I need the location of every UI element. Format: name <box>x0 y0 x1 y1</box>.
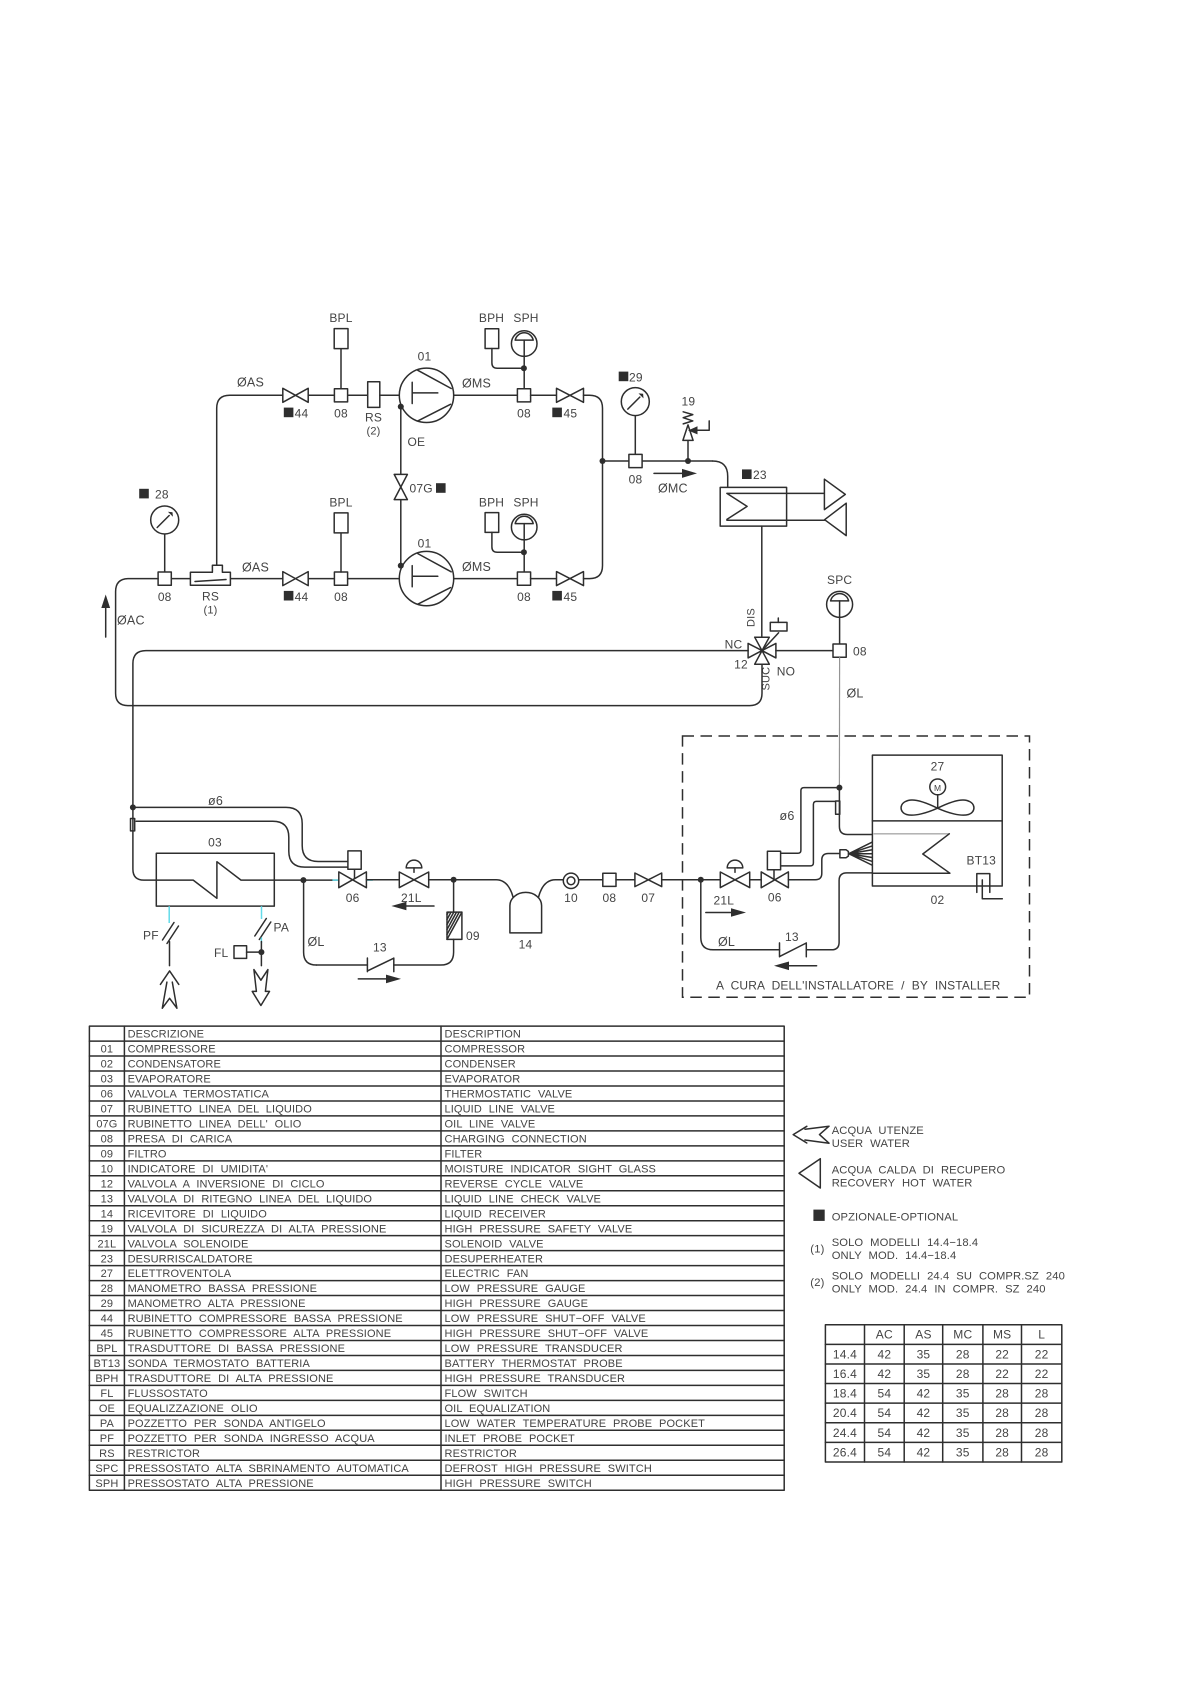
svg-text:ø6: ø6 <box>208 794 223 808</box>
wire: desuperheater water pipes <box>787 493 825 520</box>
svg-text:SONDA TERMOSTATO BATTERIA: SONDA TERMOSTATO BATTERIA <box>128 1358 311 1370</box>
reverse cycle valve 12 <box>762 633 779 651</box>
svg-text:ØAS: ØAS <box>237 376 264 390</box>
svg-text:RUBINETTO LINEA DEL LIQUIDO: RUBINETTO LINEA DEL LIQUIDO <box>128 1104 313 1116</box>
svg-text:13: 13 <box>101 1193 113 1205</box>
svg-text:26.4: 26.4 <box>833 1445 857 1459</box>
svg-text:ELECTRIC FAN: ELECTRIC FAN <box>445 1268 529 1280</box>
svg-text:RUBINETTO LINEA DELL' OLIO: RUBINETTO LINEA DELL' OLIO <box>128 1119 302 1131</box>
svg-text:06: 06 <box>101 1089 113 1101</box>
svg-text:SPH: SPH <box>513 311 538 325</box>
svg-text:INLET PROBE POCKET: INLET PROBE POCKET <box>445 1433 576 1445</box>
svg-text:08: 08 <box>334 407 348 421</box>
svg-text:OE: OE <box>99 1403 115 1415</box>
svg-text:MC: MC <box>953 1328 972 1342</box>
svg-text:PRESSOSTATO ALTA SBRINAMENTO A: PRESSOSTATO ALTA SBRINAMENTO AUTOMATICA <box>128 1463 410 1475</box>
wire: compressor 2 discharge ØMS <box>454 578 518 580</box>
svg-text:MS: MS <box>993 1328 1011 1342</box>
gauge 28 (low pressure gauge) <box>139 489 149 499</box>
svg-text:07G: 07G <box>96 1119 117 1131</box>
svg-text:LIQUID LINE VALVE: LIQUID LINE VALVE <box>445 1104 556 1116</box>
svg-text:MANOMETRO ALTA PRESSIONE: MANOMETRO ALTA PRESSIONE <box>128 1298 306 1310</box>
svg-text:DESUPERHEATER: DESUPERHEATER <box>445 1253 544 1265</box>
svg-text:PF: PF <box>100 1433 114 1445</box>
svg-text:03: 03 <box>208 836 222 850</box>
svg-text:AS: AS <box>915 1328 931 1342</box>
svg-text:OIL LINE VALVE: OIL LINE VALVE <box>445 1119 536 1131</box>
wire: top suction line ØAS from RS(1) riser to compressor U1 <box>217 395 400 565</box>
svg-text:ONLY MOD. 14.4−18.4: ONLY MOD. 14.4−18.4 <box>832 1250 957 1262</box>
svg-text:ØAS: ØAS <box>242 561 269 575</box>
svg-text:ØL: ØL <box>308 935 325 949</box>
transducer BPL (top, low pressure) <box>340 349 342 389</box>
svg-text:BPL: BPL <box>329 311 352 325</box>
svg-text:RS: RS <box>202 590 219 604</box>
svg-text:POZZETTO PER SONDA ANTIGELO: POZZETTO PER SONDA ANTIGELO <box>128 1418 326 1430</box>
svg-text:28: 28 <box>995 1387 1009 1401</box>
svg-text:BPH: BPH <box>95 1373 118 1385</box>
svg-text:BPH: BPH <box>479 496 504 510</box>
water inlet triangle (recovery hot water) <box>825 503 847 535</box>
svg-text:02: 02 <box>931 893 945 907</box>
svg-text:RECOVERY HOT WATER: RECOVERY HOT WATER <box>832 1178 973 1190</box>
svg-text:DEFROST HIGH PRESSURE SWITCH: DEFROST HIGH PRESSURE SWITCH <box>445 1463 652 1475</box>
svg-text:54: 54 <box>877 1445 891 1459</box>
svg-text:14.4: 14.4 <box>833 1347 857 1361</box>
node: bypass junction (right) <box>698 877 704 883</box>
solenoid valve 21L (left) <box>406 860 422 868</box>
restrictor RS (1) <box>190 565 230 585</box>
svg-text:23: 23 <box>101 1253 113 1265</box>
svg-text:08: 08 <box>158 590 172 604</box>
node: header junction left <box>600 458 606 464</box>
svg-text:REVERSE CYCLE VALVE: REVERSE CYCLE VALVE <box>445 1178 584 1190</box>
svg-text:28: 28 <box>101 1283 113 1295</box>
wire: 08 to valve 45 (bottom) <box>531 578 557 580</box>
svg-text:TRASDUTTORE DI ALTA PRESSIONE: TRASDUTTORE DI ALTA PRESSIONE <box>128 1373 334 1385</box>
svg-text:08: 08 <box>629 473 643 487</box>
svg-text:23: 23 <box>753 468 767 482</box>
svg-text:PRESA DI CARICA: PRESA DI CARICA <box>128 1133 233 1145</box>
svg-text:18.4: 18.4 <box>833 1387 857 1401</box>
water inlet arrow (up) <box>160 971 178 1008</box>
svg-text:35: 35 <box>956 1406 970 1420</box>
spray lines <box>849 840 877 868</box>
svg-text:FILTRO: FILTRO <box>128 1148 167 1160</box>
svg-text:HIGH PRESSURE TRANSDUCER: HIGH PRESSURE TRANSDUCER <box>445 1373 626 1385</box>
svg-text:35: 35 <box>956 1426 970 1440</box>
svg-text:CONDENSATORE: CONDENSATORE <box>128 1059 221 1071</box>
node: FL junction <box>258 949 264 955</box>
safety valve 19 (high pressure safety valve) <box>687 441 689 461</box>
svg-text:28: 28 <box>956 1347 970 1361</box>
svg-text:OIL EQUALIZATION: OIL EQUALIZATION <box>445 1403 551 1415</box>
wire: bottom discharge up to common header <box>584 461 603 579</box>
condenser 02 box <box>872 755 1002 886</box>
svg-text:VALVOLA DI SICUREZZA DI ALTA P: VALVOLA DI SICUREZZA DI ALTA PRESSIONE <box>128 1223 387 1235</box>
charging connection 08 (bottom discharge) <box>517 572 530 585</box>
svg-text:13: 13 <box>373 941 387 955</box>
charging connection 08 (top discharge) <box>517 389 530 402</box>
svg-text:BT13: BT13 <box>94 1358 121 1370</box>
wire: oil equalization line OE <box>400 407 402 566</box>
thermostatic valve 06 (right) with actuator <box>767 851 780 870</box>
svg-text:ØL: ØL <box>847 687 864 701</box>
svg-text:42: 42 <box>917 1406 931 1420</box>
svg-text:16.4: 16.4 <box>833 1367 857 1381</box>
svg-text:MANOMETRO BASSA PRESSIONE: MANOMETRO BASSA PRESSIONE <box>128 1283 318 1295</box>
svg-text:NO: NO <box>777 665 795 679</box>
svg-text:MOISTURE INDICATOR SIGHT GLASS: MOISTURE INDICATOR SIGHT GLASS <box>445 1163 657 1175</box>
svg-text:14: 14 <box>101 1208 113 1220</box>
svg-text:INDICATORE DI UMIDITA': INDICATORE DI UMIDITA' <box>128 1163 268 1175</box>
charging connection 08 (left, suction header) <box>158 572 171 585</box>
wire: riser to evaporator inlet <box>133 807 156 880</box>
svg-text:21L: 21L <box>714 894 735 908</box>
restrictor on ØL line (right) <box>836 801 840 814</box>
svg-text:NC: NC <box>725 638 743 652</box>
moisture indicator sight glass 10 <box>563 873 578 888</box>
svg-text:(1): (1) <box>810 1244 824 1256</box>
water outlet arrow (down) <box>252 970 269 1006</box>
spray nozzle at condenser <box>840 850 849 858</box>
thermostatic valve 06 (left) with actuator <box>348 851 361 869</box>
svg-text:12: 12 <box>101 1178 113 1190</box>
svg-text:THERMOSTATIC VALVE: THERMOSTATIC VALVE <box>445 1089 573 1101</box>
charging connection 08 (reverse valve) <box>833 644 846 657</box>
evaporator 03 <box>156 853 274 906</box>
svg-text:07G: 07G <box>410 482 433 496</box>
optional marker square <box>813 1210 824 1221</box>
svg-text:28: 28 <box>1035 1387 1049 1401</box>
svg-text:28: 28 <box>1035 1406 1049 1420</box>
transducer BPH (top, high pressure) <box>485 329 499 349</box>
wire: ØL to condenser coil top <box>839 788 872 835</box>
svg-text:DESURRISCALDATORE: DESURRISCALDATORE <box>128 1253 253 1265</box>
restrictor on liquid riser (left) <box>131 819 135 831</box>
condenser coil <box>874 833 950 835</box>
wire: main liquid line in installer box <box>662 879 721 881</box>
node: oil equalization tap on compressor 1 <box>398 404 404 410</box>
compressor 01 (top) <box>399 368 453 422</box>
wire: ø6 bulb line to TEV (right) <box>781 801 836 866</box>
svg-text:FILTER: FILTER <box>445 1148 483 1160</box>
recovery hot water arrow symbol <box>799 1159 820 1188</box>
svg-text:SOLENOID VALVE: SOLENOID VALVE <box>445 1238 544 1250</box>
svg-text:44: 44 <box>295 590 309 604</box>
svg-text:54: 54 <box>877 1426 891 1440</box>
wire: ø6 equalization line (left) <box>133 807 348 861</box>
wire: filter to bypass (left) <box>394 939 454 965</box>
svg-text:10: 10 <box>564 891 578 905</box>
svg-text:AC: AC <box>876 1328 893 1342</box>
probe pocket PA (antifreeze probe) <box>261 906 263 919</box>
node: junction SPH/BPH (bottom) <box>521 549 527 555</box>
svg-text:SOLO MODELLI 24.4 SU COMPR.SZ: SOLO MODELLI 24.4 SU COMPR.SZ 240 <box>832 1271 1065 1283</box>
svg-text:09: 09 <box>466 929 480 943</box>
wire: compressor 1 discharge ØMS <box>454 394 518 396</box>
wire: reverse valve to 08 right <box>776 650 833 652</box>
svg-text:BATTERY THERMOSTAT PROBE: BATTERY THERMOSTAT PROBE <box>445 1358 623 1370</box>
svg-text:35: 35 <box>917 1367 931 1381</box>
flow switch FL <box>234 946 247 959</box>
svg-text:28: 28 <box>1035 1426 1049 1440</box>
svg-text:RS: RS <box>365 411 382 425</box>
svg-text:FLUSSOSTATO: FLUSSOSTATO <box>128 1388 208 1400</box>
wire: header to desuperheater <box>713 461 728 487</box>
svg-text:ØMS: ØMS <box>462 560 491 574</box>
svg-text:22: 22 <box>995 1347 1009 1361</box>
svg-text:29: 29 <box>629 370 643 384</box>
wire: evaporator outlet line <box>303 879 339 881</box>
svg-text:22: 22 <box>1035 1347 1049 1361</box>
gauge 29 (high pressure gauge) <box>619 372 629 382</box>
svg-text:HIGH PRESSURE SHUT−OFF VALVE: HIGH PRESSURE SHUT−OFF VALVE <box>445 1328 649 1340</box>
svg-text:LIQUID RECEIVER: LIQUID RECEIVER <box>445 1208 546 1220</box>
wire: TEV to spray nozzle <box>788 854 839 880</box>
svg-text:BT13: BT13 <box>967 854 997 868</box>
svg-text:27: 27 <box>931 760 945 774</box>
legend table <box>89 1026 784 1490</box>
svg-text:EQUALIZZAZIONE OLIO: EQUALIZZAZIONE OLIO <box>128 1403 258 1415</box>
valve 44 (low pressure shut-off, top circuit) <box>283 388 308 402</box>
svg-text:42: 42 <box>917 1426 931 1440</box>
pipe size table <box>825 1325 1061 1462</box>
svg-text:(2): (2) <box>366 426 380 438</box>
pressure switch SPH (top) <box>511 331 537 357</box>
node: oil equalization tap on compressor 2 <box>398 563 404 569</box>
wire: desuperheater outlet down to reverse cycle valve DIS <box>761 526 763 637</box>
wire: RS(2) to compressor 1 <box>380 394 402 396</box>
svg-text:PA: PA <box>274 921 290 935</box>
svg-text:ELETTROVENTOLA: ELETTROVENTOLA <box>128 1268 232 1280</box>
svg-text:01: 01 <box>418 537 432 551</box>
svg-text:03: 03 <box>101 1074 113 1086</box>
svg-text:42: 42 <box>917 1445 931 1459</box>
svg-text:POZZETTO PER SONDA INGRESSO AC: POZZETTO PER SONDA INGRESSO ACQUA <box>128 1433 376 1445</box>
svg-text:PRESSOSTATO ALTA PRESSIONE: PRESSOSTATO ALTA PRESSIONE <box>128 1478 314 1490</box>
svg-text:07: 07 <box>101 1104 113 1116</box>
svg-text:RESTRICTOR: RESTRICTOR <box>128 1448 201 1460</box>
charging connection 08 (bottom suction) <box>334 572 347 585</box>
svg-text:HIGH PRESSURE SAFETY VALVE: HIGH PRESSURE SAFETY VALVE <box>445 1223 633 1235</box>
compressor 01 (bottom) <box>399 551 453 605</box>
user water arrow symbol <box>793 1126 829 1143</box>
wire: 06 to 21L (left) <box>366 879 399 881</box>
svg-text:BPL: BPL <box>96 1343 117 1355</box>
svg-text:45: 45 <box>564 590 578 604</box>
svg-text:35: 35 <box>956 1445 970 1459</box>
svg-text:DESCRIZIONE: DESCRIZIONE <box>128 1029 205 1041</box>
svg-text:USER WATER: USER WATER <box>832 1138 910 1150</box>
svg-text:FL: FL <box>100 1388 113 1400</box>
restrictor RS (2) <box>368 382 380 408</box>
svg-text:SPH: SPH <box>513 496 538 510</box>
svg-text:28: 28 <box>995 1426 1009 1440</box>
wire: bypass riser (left) <box>304 880 317 965</box>
wire: sight glass to 08 <box>579 879 603 881</box>
svg-text:RS: RS <box>99 1448 115 1460</box>
installer dashed box <box>683 736 1030 997</box>
svg-text:28: 28 <box>995 1445 1009 1459</box>
check valve 13 (left) <box>367 958 393 972</box>
svg-text:SPC: SPC <box>95 1463 118 1475</box>
transducer BPH (bottom) <box>485 513 499 533</box>
charging connection 08 (top suction) <box>334 389 347 402</box>
desuperheater 23 <box>720 487 786 526</box>
node: header junction right <box>685 458 691 464</box>
svg-text:28: 28 <box>995 1406 1009 1420</box>
svg-text:08: 08 <box>853 644 867 658</box>
probe pocket PF (inlet probe) <box>168 906 170 923</box>
svg-text:28: 28 <box>956 1367 970 1381</box>
svg-text:ØMS: ØMS <box>462 377 491 391</box>
svg-text:PF: PF <box>143 929 159 943</box>
svg-text:LOW WATER TEMPERATURE PROBE PO: LOW WATER TEMPERATURE PROBE POCKET <box>445 1418 706 1430</box>
svg-text:01: 01 <box>101 1044 113 1056</box>
wire: bypass to junction (right) <box>701 880 713 950</box>
svg-text:RICEVITORE DI LIQUIDO: RICEVITORE DI LIQUIDO <box>128 1208 268 1220</box>
wire: bottom suction line ØAS <box>171 578 190 580</box>
svg-text:OE: OE <box>408 435 426 449</box>
node: ø6 junction at condenser <box>836 785 842 791</box>
battery thermostat probe BT13 <box>977 874 1003 899</box>
svg-text:22: 22 <box>1035 1367 1049 1381</box>
svg-text:01: 01 <box>418 350 432 364</box>
svg-text:VALVOLA TERMOSTATICA: VALVOLA TERMOSTATICA <box>128 1089 270 1101</box>
svg-text:RUBINETTO COMPRESSORE BASSA PR: RUBINETTO COMPRESSORE BASSA PRESSIONE <box>128 1313 403 1325</box>
svg-text:27: 27 <box>101 1268 113 1280</box>
svg-text:08: 08 <box>517 590 531 604</box>
svg-text:42: 42 <box>877 1347 891 1361</box>
flow arrow at check valve (right) <box>774 962 789 971</box>
wire: liquid line to receiver 14 <box>454 880 564 898</box>
charging connection 08 (liquid line) <box>603 873 616 886</box>
wire: 08 to valve 45 (top) <box>531 394 557 396</box>
svg-text:ØMC: ØMC <box>658 482 688 496</box>
solenoid valve 21L (right) <box>727 860 743 868</box>
flow arrow at 21L (left) <box>391 902 406 911</box>
svg-text:BPL: BPL <box>329 496 352 510</box>
svg-text:M: M <box>934 783 941 793</box>
transducer BPL (bottom) <box>340 533 342 572</box>
svg-text:FL: FL <box>214 946 229 960</box>
svg-text:VALVOLA DI RITEGNO LINEA DEL L: VALVOLA DI RITEGNO LINEA DEL LIQUIDO <box>128 1193 373 1205</box>
svg-text:ØL: ØL <box>718 935 735 949</box>
flow arrow ØMC <box>654 472 684 474</box>
svg-text:13: 13 <box>785 930 799 944</box>
wire: discharge header ØMC <box>603 460 713 462</box>
svg-text:35: 35 <box>956 1387 970 1401</box>
svg-text:21L: 21L <box>98 1238 117 1250</box>
liquid receiver 14 <box>510 892 542 933</box>
svg-text:19: 19 <box>101 1223 113 1235</box>
svg-text:SPH: SPH <box>95 1478 118 1490</box>
svg-text:24.4: 24.4 <box>833 1426 857 1440</box>
svg-text:ø6: ø6 <box>780 809 795 823</box>
valve 45 (high pressure shut-off, top circuit) <box>557 388 584 402</box>
svg-text:ACQUA CALDA DI RECUPERO: ACQUA CALDA DI RECUPERO <box>832 1165 1006 1177</box>
svg-text:44: 44 <box>101 1313 113 1325</box>
svg-text:OPZIONALE-OPTIONAL: OPZIONALE-OPTIONAL <box>832 1211 959 1223</box>
svg-text:08: 08 <box>517 407 531 421</box>
wire: ø6 equalization line to TEV (right) <box>781 788 840 854</box>
svg-text:12: 12 <box>734 658 748 672</box>
svg-text:LOW PRESSURE GAUGE: LOW PRESSURE GAUGE <box>445 1283 586 1295</box>
wire: condenser bottom to check valve bypass (right) <box>806 873 872 950</box>
svg-text:29: 29 <box>101 1298 113 1310</box>
svg-text:06: 06 <box>768 891 782 905</box>
electric fan 27 blades <box>901 800 937 815</box>
svg-text:DIS: DIS <box>746 608 758 627</box>
svg-text:SOLO MODELLI 14.4−18.4: SOLO MODELLI 14.4−18.4 <box>832 1237 979 1249</box>
flow arrow ØAC <box>105 606 107 637</box>
svg-text:ONLY MOD. 24.4 IN COMPR. SZ 24: ONLY MOD. 24.4 IN COMPR. SZ 240 <box>832 1284 1046 1296</box>
electric fan 27 motor <box>930 779 946 795</box>
valve 44 (low pressure shut-off, bottom circuit) <box>283 572 308 586</box>
svg-text:08: 08 <box>603 891 617 905</box>
svg-text:06: 06 <box>346 891 360 905</box>
node: junction before receiver <box>451 877 457 883</box>
svg-text:ØAC: ØAC <box>117 614 145 628</box>
svg-text:LOW PRESSURE SHUT−OFF VALVE: LOW PRESSURE SHUT−OFF VALVE <box>445 1313 646 1325</box>
svg-text:54: 54 <box>877 1387 891 1401</box>
svg-text:BPH: BPH <box>479 311 504 325</box>
flow arrow at 21L (right) <box>706 912 733 914</box>
flow arrow at check valve (left) <box>358 978 388 980</box>
node: junction SPH/BPH (top) <box>521 365 527 371</box>
filter 09 <box>453 880 455 912</box>
svg-text:02: 02 <box>101 1059 113 1071</box>
svg-text:TRASDUTTORE DI BASSA PRESSIONE: TRASDUTTORE DI BASSA PRESSIONE <box>128 1343 345 1355</box>
svg-text:09: 09 <box>101 1148 113 1160</box>
svg-text:28: 28 <box>1035 1445 1049 1459</box>
svg-text:CHARGING CONNECTION: CHARGING CONNECTION <box>445 1133 587 1145</box>
svg-text:LIQUID LINE CHECK VALVE: LIQUID LINE CHECK VALVE <box>445 1193 602 1205</box>
svg-text:L: L <box>1038 1328 1045 1342</box>
svg-text:CONDENSER: CONDENSER <box>445 1059 516 1071</box>
svg-text:45: 45 <box>101 1328 113 1340</box>
wire: long line B - reverse valve SUC return <box>116 579 762 706</box>
svg-text:RESTRICTOR: RESTRICTOR <box>445 1448 518 1460</box>
svg-text:COMPRESSORE: COMPRESSORE <box>128 1044 216 1056</box>
svg-text:(1): (1) <box>203 605 217 617</box>
node: junction at evaporator outlet <box>300 877 306 883</box>
svg-text:RUBINETTO COMPRESSORE ALTA PRE: RUBINETTO COMPRESSORE ALTA PRESSIONE <box>128 1328 392 1340</box>
wire: top discharge down to common header <box>584 395 603 461</box>
svg-text:28: 28 <box>155 488 169 502</box>
svg-text:44: 44 <box>295 407 309 421</box>
liquid line valve 07 <box>635 873 662 887</box>
svg-text:A CURA DELL'INSTALLATORE / BY: A CURA DELL'INSTALLATORE / BY INSTALLER <box>716 979 1001 993</box>
svg-text:SPC: SPC <box>827 573 852 587</box>
svg-text:07: 07 <box>641 891 655 905</box>
svg-text:(2): (2) <box>810 1277 824 1289</box>
svg-text:10: 10 <box>101 1163 113 1175</box>
svg-text:HIGH PRESSURE GAUGE: HIGH PRESSURE GAUGE <box>445 1298 589 1310</box>
svg-text:DESCRIPTION: DESCRIPTION <box>445 1029 522 1041</box>
svg-text:54: 54 <box>877 1406 891 1420</box>
svg-text:45: 45 <box>564 407 578 421</box>
wire: ø6 bulb line (left) <box>136 821 348 867</box>
svg-text:EVAPORATOR: EVAPORATOR <box>445 1074 521 1086</box>
svg-text:14: 14 <box>519 938 533 952</box>
charging connection 08 (discharge header) <box>629 454 642 467</box>
svg-text:35: 35 <box>917 1347 931 1361</box>
wire: 21L to receiver junction <box>429 879 454 881</box>
valve 45 (high pressure shut-off, bottom circuit) <box>557 572 584 586</box>
svg-text:42: 42 <box>877 1367 891 1381</box>
